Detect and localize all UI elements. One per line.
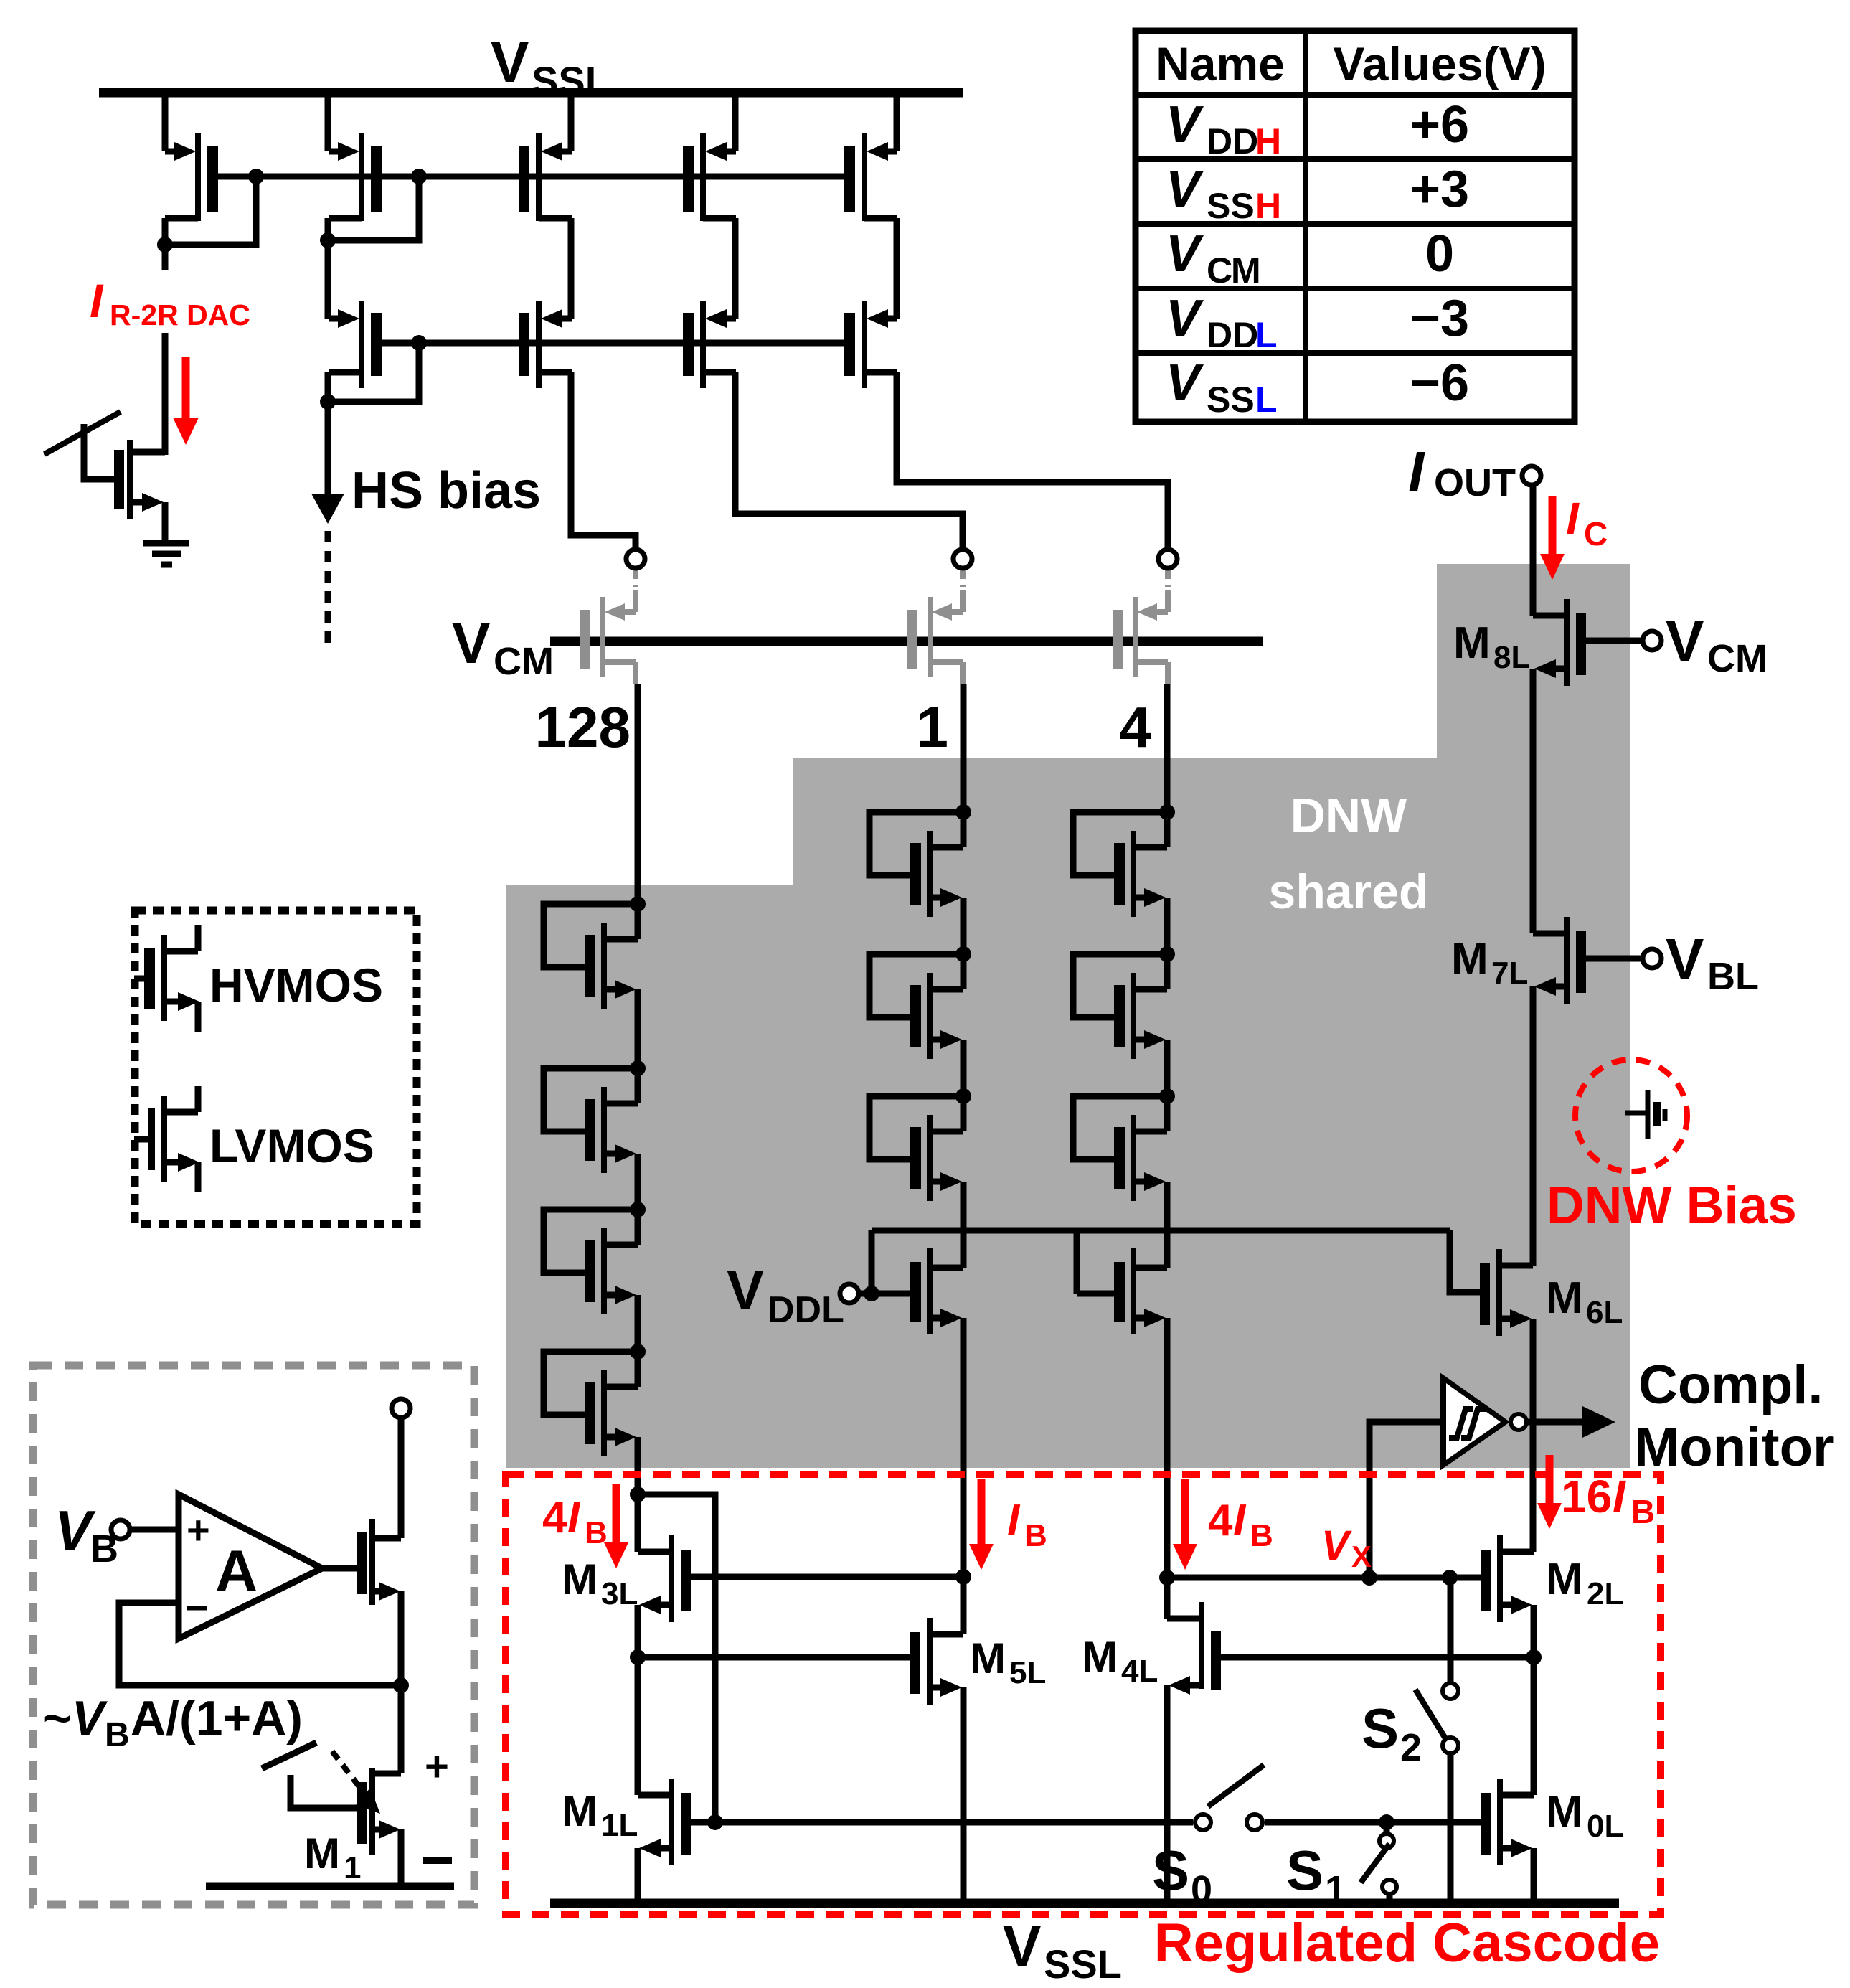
column1 wire segment 3: [635, 1295, 641, 1352]
label DNW shared (white): [1269, 788, 1429, 919]
column1 diode transistor C1-4: [544, 1344, 646, 1456]
label M0L: [1546, 1787, 1623, 1844]
svg-text:H: H: [1255, 121, 1281, 161]
transistor T9 (row2): [844, 301, 897, 388]
table header Name: [1156, 37, 1285, 90]
svg-text:−6: −6: [1410, 354, 1469, 412]
label S2: [1361, 1697, 1422, 1769]
net label V_CM: [452, 611, 554, 683]
wire M5L to rail: [961, 1687, 967, 1903]
svg-text:B: B: [1631, 1493, 1655, 1530]
transistor M4L: [1167, 1602, 1221, 1695]
wire T2 drain to row2: [325, 240, 331, 319]
column2 wire to 4th row: [961, 1182, 967, 1268]
transistor M1L: [638, 1779, 691, 1865]
terminal circle column3: [1158, 550, 1177, 568]
label ~V_BA/(1+A): [43, 1691, 303, 1754]
table row CM: [1166, 225, 1454, 291]
wire M1L to rail: [635, 1848, 641, 1903]
label M2L: [1546, 1555, 1623, 1611]
svg-text:3L: 3L: [601, 1576, 638, 1611]
transistor M0L: [1481, 1779, 1534, 1865]
svg-text:2: 2: [1400, 1726, 1422, 1769]
svg-text:4: 4: [542, 1493, 567, 1542]
svg-text:−: −: [185, 1585, 209, 1630]
svg-text:I: I: [1566, 493, 1580, 545]
svg-text:2L: 2L: [1587, 1576, 1623, 1611]
svg-text:C: C: [1584, 515, 1608, 552]
legend HVMOS symbol: [134, 925, 199, 1032]
table row SSH: [1166, 161, 1469, 226]
wire col2 M3L-gate-node to M5L: [961, 1577, 967, 1634]
terminal circle column1: [626, 550, 645, 568]
svg-text:A/(1+A): A/(1+A): [131, 1691, 303, 1746]
label M8L: [1453, 618, 1530, 675]
svg-text:Name: Name: [1156, 37, 1285, 90]
svg-text:8L: 8L: [1493, 640, 1530, 675]
column1 wire to cascode: [635, 1437, 641, 1494]
svg-text:V: V: [452, 611, 490, 675]
svg-text:B: B: [585, 1515, 608, 1550]
gray HV transistor G1 on V_CM rail: [580, 570, 636, 684]
svg-text:0: 0: [1191, 1868, 1212, 1911]
column2 wire segment 2: [961, 1040, 967, 1096]
switch S2: [1415, 1578, 1458, 1903]
wire T7 drain to column1 terminal: [571, 372, 636, 549]
wire M6L to M2L: [1530, 1319, 1537, 1552]
svg-text:shared: shared: [1269, 865, 1429, 919]
transistor T4 (HV PMOS mirror): [683, 97, 736, 221]
svg-text:L: L: [1255, 380, 1278, 420]
svg-text:DNW Bias: DNW Bias: [1547, 1177, 1797, 1235]
svg-text:B: B: [105, 1716, 130, 1754]
V_DDL gate bus: [872, 1228, 1450, 1234]
table row DDH: [1166, 96, 1469, 161]
svg-text:V: V: [1166, 225, 1204, 283]
legend LVMOS symbol: [134, 1086, 199, 1192]
column2 wire segment 1: [961, 898, 967, 954]
table header Values(V): [1333, 37, 1546, 90]
M4L gate line to M2L drain: [1221, 1649, 1542, 1665]
wire V_B to opamp: [130, 1527, 179, 1533]
wire T8 drain to column2 terminal: [735, 372, 963, 549]
net label V_SSL (bottom): [1003, 1914, 1122, 1987]
svg-text:S: S: [1361, 1697, 1399, 1760]
row1 gate bus: [218, 174, 845, 180]
row2 gate bus: [382, 340, 845, 347]
column3 wire segment 2: [1164, 1040, 1171, 1096]
current arrow I_R-2R (red): [173, 357, 199, 445]
svg-text:1L: 1L: [601, 1808, 638, 1843]
column3 wire to 4th row: [1164, 1182, 1171, 1268]
svg-text:4L: 4L: [1121, 1654, 1158, 1689]
current arrow I_C (red): [1540, 496, 1565, 580]
svg-text:+3: +3: [1410, 161, 1469, 218]
column3 wire top: [1164, 684, 1171, 812]
svg-text:Compl.: Compl.: [1638, 1355, 1823, 1415]
svg-text:V: V: [1166, 290, 1204, 347]
label HVMOS: [209, 958, 383, 1012]
svg-text:1: 1: [917, 695, 949, 759]
svg-text:V: V: [1666, 927, 1704, 991]
svg-text:DNW: DNW: [1290, 788, 1407, 843]
svg-text:I: I: [90, 274, 104, 327]
svg-text:+6: +6: [1410, 96, 1469, 154]
wire to M1: [398, 1685, 405, 1773]
svg-text:S: S: [1152, 1839, 1189, 1902]
svg-text:V: V: [1666, 609, 1704, 673]
label 16I_B (red): [1561, 1471, 1655, 1530]
opamp output wire: [322, 1565, 357, 1572]
terminal V_B: [111, 1520, 130, 1539]
wire M3L drain node: [630, 1605, 646, 1665]
svg-text:I: I: [1007, 1496, 1021, 1545]
wire QHV source to ground: [162, 502, 169, 543]
svg-text:SSL: SSL: [532, 58, 610, 103]
current arrow I_B (red): [969, 1479, 994, 1570]
column1 wire segment 1: [635, 989, 641, 1068]
svg-text:1: 1: [1325, 1868, 1346, 1911]
svg-text:+: +: [187, 1507, 210, 1553]
M6L gate lead: [1450, 1230, 1480, 1292]
svg-text:M: M: [970, 1634, 1006, 1682]
column3 wire segment 1: [1164, 898, 1171, 954]
V_CM rail: [550, 637, 1263, 646]
ratio label 128: [535, 695, 631, 759]
svg-text:M: M: [562, 1555, 598, 1603]
M1L-M0L gate line left part: [691, 1814, 1193, 1830]
wire M2L drain node: [1531, 1605, 1537, 1657]
T6 diode loop: [320, 335, 427, 410]
column3 wire to cascode: [1164, 1318, 1171, 1578]
gate line S0 to M0L: [1265, 1819, 1482, 1826]
column1 diode transistor C1-3: [544, 1202, 646, 1314]
wire M7L to M6L: [1530, 986, 1537, 1266]
svg-text:OUT: OUT: [1434, 461, 1516, 504]
svg-text:0L: 0L: [1587, 1809, 1623, 1844]
transistor QHV (HV switch, gate slash): [44, 412, 165, 519]
label 4I_B right (red): [1208, 1496, 1273, 1553]
ratio label 4: [1120, 695, 1152, 759]
label M1: [304, 1829, 361, 1885]
current arrow 4I_B left (red): [604, 1484, 628, 1568]
schmitt input wire: [1369, 1422, 1440, 1578]
node col1-cascode: [630, 1487, 715, 1822]
svg-text:M: M: [1546, 1555, 1583, 1604]
svg-text:Values(V): Values(V): [1333, 37, 1546, 90]
T2 diode loop: [320, 169, 427, 248]
pass transistor QP (opamp follower): [357, 1418, 401, 1685]
svg-text:~: ~: [43, 1691, 72, 1746]
transistor C2-4 (V_DDL cascode): [864, 1230, 963, 1334]
svg-text:V: V: [72, 1691, 108, 1746]
svg-text:X: X: [1351, 1540, 1372, 1573]
V_X node line: [1159, 1570, 1482, 1586]
current arrow 4I_B right (red): [1173, 1479, 1197, 1570]
column1 diode transistor C1-1: [544, 896, 646, 1009]
column2 wire top: [961, 684, 967, 812]
transistor T1 (HV PMOS mirror, diode-connected): [165, 97, 218, 221]
svg-text:I: I: [1408, 440, 1425, 504]
svg-text:L: L: [1255, 315, 1278, 355]
transistor M6L: [1480, 1249, 1533, 1336]
M8L gate to V_CM terminal: [1586, 631, 1661, 650]
wire col3 to M4L: [1164, 1578, 1171, 1619]
label I_B (red): [1007, 1496, 1047, 1553]
svg-text:HS bias: HS bias: [351, 462, 541, 519]
opamp gray dashed box: [33, 1365, 474, 1905]
terminal V_DDL: [840, 1284, 872, 1303]
transistor T7 (row2): [519, 301, 572, 388]
op-amp A: [179, 1494, 322, 1639]
column2 diode transistor 2-1: [869, 804, 971, 917]
svg-text:M: M: [1451, 934, 1488, 984]
label M4L: [1082, 1633, 1158, 1689]
transistor M8L: [1533, 599, 1586, 686]
label 4I_B left (red): [542, 1493, 608, 1550]
current arrow 16I_B (red): [1537, 1455, 1562, 1529]
switch S1: [1361, 1814, 1397, 1903]
transistor C3-4 (V_DDL cascode): [1077, 1230, 1167, 1334]
svg-text:128: 128: [535, 695, 631, 759]
transistor T3 (HV PMOS mirror): [519, 97, 572, 221]
column3 diode transistor 3-2: [1073, 946, 1175, 1059]
label M1L: [562, 1787, 638, 1843]
schmitt trigger buffer: [1440, 1372, 1615, 1471]
column1 wire top: [635, 684, 641, 904]
svg-text:Regulated Cascode: Regulated Cascode: [1154, 1913, 1660, 1974]
gray HV transistor G2 on V_CM rail: [907, 570, 963, 684]
wire M2L to M0L: [1531, 1657, 1537, 1795]
svg-text:4: 4: [1120, 695, 1152, 759]
label S0: [1152, 1839, 1212, 1911]
opamp box bottom rail: [206, 1883, 454, 1890]
svg-text:V: V: [1166, 354, 1204, 412]
net label V_DDL: [727, 1258, 844, 1331]
svg-text:SS: SS: [1207, 380, 1255, 420]
wire M0L to rail: [1531, 1848, 1537, 1903]
M5L gate line: [638, 1654, 912, 1661]
svg-text:−3: −3: [1410, 290, 1469, 347]
transistor M1 (HV, slash): [262, 1743, 401, 1883]
svg-text:BL: BL: [1707, 955, 1759, 998]
label M3L: [562, 1555, 638, 1611]
table row SSL: [1166, 354, 1469, 420]
svg-text:M: M: [562, 1787, 598, 1835]
svg-text:Monitor: Monitor: [1634, 1417, 1834, 1478]
transistor M3L: [638, 1494, 691, 1622]
column3 diode transistor 3-1: [1073, 804, 1175, 917]
label + (M1 drain): [425, 1743, 449, 1790]
svg-text:V: V: [1166, 96, 1204, 154]
label Compl. Monitor: [1634, 1355, 1834, 1478]
wire I_R-2R lower: [162, 333, 169, 455]
net label I_R-2R DAC (red): [90, 274, 250, 331]
wire I_OUT to M8L: [1530, 486, 1537, 616]
svg-text:S: S: [1286, 1839, 1323, 1902]
svg-text:0: 0: [1425, 225, 1454, 283]
svg-text:HVMOS: HVMOS: [209, 958, 383, 1012]
svg-text:I: I: [1233, 1496, 1247, 1545]
svg-text:M: M: [1231, 250, 1261, 291]
svg-text:I: I: [1613, 1471, 1626, 1522]
svg-text:I: I: [567, 1493, 581, 1542]
wire I_R-2R upper: [162, 245, 169, 270]
svg-text:7L: 7L: [1491, 956, 1528, 991]
net label V_SSL (top): [491, 30, 610, 103]
wire M8L to M7L: [1530, 669, 1537, 933]
transistor T8 (row2): [683, 301, 736, 388]
svg-text:A: A: [215, 1539, 258, 1604]
svg-text:CM: CM: [494, 640, 554, 683]
svg-text:SS: SS: [1207, 186, 1255, 226]
label V_X (red): [1321, 1522, 1372, 1573]
svg-text:M: M: [1453, 618, 1491, 668]
feedback wire: [119, 1603, 409, 1693]
svg-text:16: 16: [1561, 1471, 1612, 1522]
terminal I_OUT: [1522, 466, 1541, 485]
svg-text:V: V: [727, 1258, 764, 1322]
svg-text:V: V: [1003, 1914, 1041, 1978]
label S1: [1286, 1839, 1346, 1911]
svg-text:SSL: SSL: [1044, 1941, 1122, 1987]
column2 diode transistor 2-2: [869, 946, 971, 1059]
T1 diode loop: [157, 169, 264, 253]
label LVMOS: [209, 1119, 374, 1172]
wire T9 drain to column3 terminal: [897, 372, 1168, 549]
label M6L: [1546, 1273, 1623, 1330]
svg-text:M: M: [304, 1829, 340, 1878]
gray HV transistor G3 on V_CM rail: [1113, 570, 1168, 684]
M7L gate to V_BL terminal: [1586, 949, 1661, 968]
svg-text:M: M: [1082, 1633, 1118, 1681]
transistor M2L: [1481, 1535, 1534, 1622]
legend dashed box: [135, 910, 417, 1224]
svg-text:5L: 5L: [1009, 1655, 1046, 1690]
table grid: [1136, 31, 1575, 422]
column3 diode transistor 3-3: [1073, 1088, 1175, 1201]
transistor T6 (row2, diode-connected): [329, 301, 382, 388]
V_SSL top rail: [99, 88, 963, 98]
transistor M5L: [910, 1618, 963, 1705]
svg-text:4: 4: [1208, 1496, 1233, 1545]
net label V_B: [55, 1499, 118, 1570]
svg-text:M: M: [1546, 1273, 1583, 1323]
label M5L: [970, 1634, 1046, 1690]
transistor T2 (HV PMOS mirror, diode-connected): [328, 97, 382, 221]
wire M3L to M1L: [635, 1657, 641, 1795]
ratio label 1: [917, 695, 949, 759]
svg-text:1: 1: [344, 1850, 361, 1885]
svg-text:+: +: [425, 1743, 449, 1790]
net label I_OUT: [1408, 440, 1516, 504]
svg-text:DD: DD: [1207, 315, 1258, 355]
net label V_CM (right): [1666, 609, 1768, 680]
svg-text:LVMOS: LVMOS: [209, 1119, 374, 1172]
M3L gate line to col2: [691, 1569, 971, 1585]
svg-text:6L: 6L: [1586, 1295, 1623, 1330]
svg-text:DDL: DDL: [768, 1289, 844, 1331]
terminal circle column2: [953, 550, 972, 568]
wire T4 drain to row2: [732, 218, 739, 319]
column2 wire to cascode: [961, 1318, 967, 1578]
switch S0: [1195, 1765, 1264, 1830]
svg-text:R-2R DAC: R-2R DAC: [110, 298, 250, 331]
dashed pointer arrow: [332, 1751, 380, 1814]
svg-text:C: C: [1207, 250, 1232, 291]
wire T3 drain to row2: [568, 218, 575, 319]
label Regulated Cascode (red): [1154, 1913, 1660, 1974]
column1 diode transistor C1-2: [544, 1060, 646, 1173]
label DNW Bias (red): [1547, 1177, 1797, 1235]
svg-text:V: V: [491, 30, 529, 94]
label I_C (red): [1566, 493, 1608, 552]
V_SSL bottom rail: [550, 1899, 1619, 1908]
table row DDL: [1166, 290, 1469, 355]
net label V_BL: [1666, 927, 1759, 998]
svg-text:V: V: [1321, 1522, 1352, 1569]
transistor T5 (HV PMOS mirror): [844, 97, 897, 221]
wire M4L to rail: [1164, 1685, 1171, 1903]
svg-text:M: M: [1546, 1787, 1583, 1837]
label - (M1 source): [423, 1857, 452, 1864]
label M7L: [1451, 934, 1528, 991]
ground symbol: [143, 543, 189, 565]
column2 diode transistor 2-3: [869, 1088, 971, 1201]
svg-text:B: B: [1024, 1518, 1047, 1553]
svg-text:CM: CM: [1707, 637, 1768, 680]
column1 wire segment 2: [635, 1154, 641, 1210]
svg-text:V: V: [1166, 161, 1204, 218]
HS bias branch: [311, 402, 541, 649]
regulated cascode dashed box: [506, 1474, 1661, 1914]
wire T5 drain to row2: [894, 218, 900, 319]
DNW bias symbol: [1575, 1060, 1687, 1172]
DNW shared gray region: [506, 564, 1630, 1468]
svg-text:DD: DD: [1207, 121, 1258, 161]
transistor M7L: [1533, 917, 1586, 1004]
terminal QP drain: [392, 1399, 410, 1418]
svg-text:B: B: [1250, 1518, 1273, 1553]
svg-text:H: H: [1255, 186, 1281, 226]
